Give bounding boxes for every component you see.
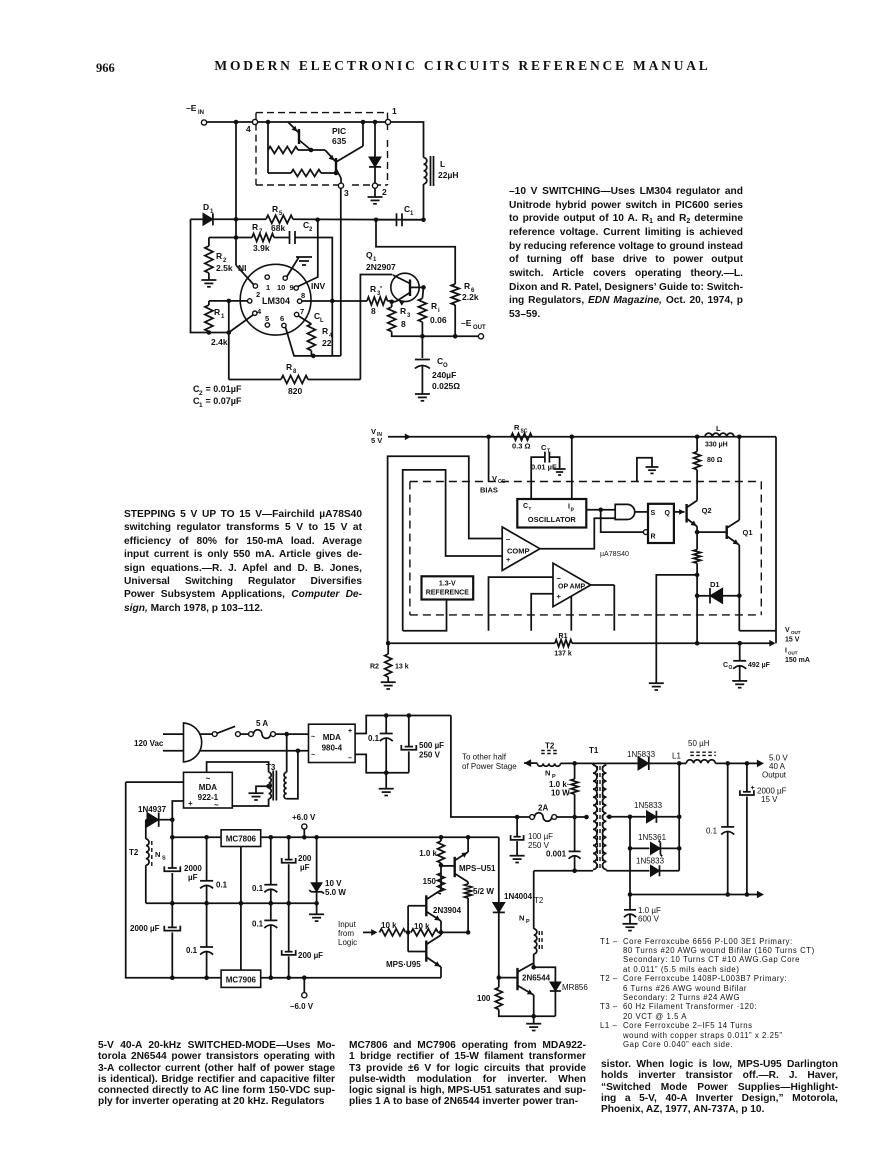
ground filter	[379, 788, 394, 790]
op-amp COMP	[502, 527, 540, 571]
svg-text:500 µF: 500 µF	[419, 741, 444, 750]
capacitor CO 492uF	[739, 643, 741, 660]
svg-text:µF: µF	[300, 863, 310, 872]
svg-text:P: P	[526, 919, 530, 925]
svg-text:': '	[380, 284, 382, 294]
svg-text:9: 9	[290, 283, 294, 292]
svg-text:15 V: 15 V	[761, 795, 778, 804]
wire lower ac line	[199, 750, 309, 752]
svg-text:+: +	[557, 592, 562, 601]
rail minus6	[220, 977, 222, 979]
svg-text:3: 3	[407, 313, 411, 319]
svg-text:492 µF: 492 µF	[748, 662, 771, 669]
wire MDA922 left to rail	[126, 781, 184, 783]
svg-text:10: 10	[277, 283, 285, 292]
svg-text:R1: R1	[559, 633, 568, 640]
wire left rail	[191, 219, 229, 332]
pin 1 of PIC	[385, 119, 390, 124]
svg-text:L: L	[320, 318, 324, 324]
capacitor 0.001	[574, 817, 576, 851]
capacitor 0.1 b	[270, 837, 272, 884]
transistor Q2	[674, 511, 685, 513]
svg-text:MDA: MDA	[199, 783, 217, 792]
svg-text:i: i	[438, 308, 440, 314]
svg-text:1N4004: 1N4004	[504, 892, 533, 901]
ground below	[649, 682, 664, 684]
wire inductor to C1 node	[423, 184, 425, 220]
svg-text:1N5833: 1N5833	[636, 857, 665, 866]
svg-text:MDA: MDA	[323, 733, 341, 742]
svg-text:0.06: 0.06	[430, 315, 447, 325]
resistor PIC internal Ra	[268, 147, 298, 154]
svg-text:OUT: OUT	[788, 651, 798, 656]
resistor R6 2.2k	[451, 284, 459, 305]
wire base chain	[407, 906, 409, 952]
terminal -E_IN	[201, 120, 206, 125]
wire plus rail corner down	[498, 836, 500, 838]
svg-text:2000 µF: 2000 µF	[130, 924, 160, 933]
capacitor 2000uF lower	[171, 903, 173, 927]
svg-text:O: O	[729, 665, 733, 671]
wire U51 collector	[467, 837, 469, 852]
svg-text:0.1: 0.1	[186, 946, 198, 955]
svg-text:50 µH: 50 µH	[688, 739, 710, 748]
box MDA 922-1	[184, 772, 233, 808]
svg-text:N: N	[155, 850, 160, 859]
capacitor 1.0uF 600V	[629, 895, 631, 910]
wire node4 vertical	[235, 122, 237, 265]
transistor Qa inside PIC	[298, 129, 300, 144]
resistor R4 22 CL	[307, 324, 315, 351]
ground below Co	[415, 393, 430, 395]
wire Q1 emitter to D1	[738, 545, 740, 631]
svg-text:8: 8	[301, 291, 305, 300]
wire Vcc bias pin	[488, 437, 490, 482]
svg-text:2: 2	[309, 227, 313, 233]
svg-text:6: 6	[280, 314, 284, 323]
svg-text:OUT: OUT	[791, 630, 801, 635]
resistor R3p 8	[367, 297, 387, 305]
svg-text:COMP: COMP	[507, 547, 530, 556]
svg-text:MC7906: MC7906	[226, 976, 257, 985]
svg-text:100 µF: 100 µF	[528, 832, 553, 841]
AC plug	[184, 723, 202, 762]
svg-text:~: ~	[206, 774, 211, 783]
svg-text:= 0.01µF: = 0.01µF	[203, 384, 242, 394]
resistor R5 68k	[266, 215, 293, 223]
svg-text:1.3-V: 1.3-V	[439, 581, 456, 588]
ground above LM304	[296, 256, 312, 258]
svg-text:−: −	[506, 535, 511, 544]
svg-text:S: S	[651, 510, 656, 517]
svg-text:MR856: MR856	[562, 983, 588, 992]
wires comp inputs nested	[388, 456, 503, 643]
svg-text:= 0.07µF: = 0.07µF	[203, 396, 242, 406]
svg-text:C: C	[723, 662, 728, 669]
wire pin2 NI diagonal	[236, 265, 254, 284]
svg-text:250 V: 250 V	[419, 751, 441, 760]
svg-text:L: L	[440, 159, 445, 169]
svg-text:MPS·U95: MPS·U95	[386, 960, 421, 969]
svg-text:R: R	[651, 534, 656, 541]
AND gate	[615, 504, 635, 519]
wire 6544 collector	[533, 963, 535, 967]
pin circles LM304	[265, 275, 269, 279]
wire pin6 diagonal to rail	[286, 327, 341, 356]
svg-text:of Power Stage: of Power Stage	[462, 762, 517, 771]
wire internal left vertical	[267, 122, 269, 150]
svg-text:100: 100	[477, 994, 491, 1003]
svg-text:V: V	[785, 627, 790, 634]
svg-text:0.3 Ω: 0.3 Ω	[512, 442, 531, 451]
capacitor 0.1 a	[206, 837, 208, 881]
svg-text:2000: 2000	[184, 864, 202, 873]
wire Ip pin	[571, 437, 573, 499]
svg-text:T2: T2	[129, 848, 139, 857]
svg-text:4: 4	[246, 124, 251, 134]
wire C1 to R6 top	[376, 220, 455, 284]
svg-text:0.1: 0.1	[368, 734, 380, 743]
svg-text:OSCILLATOR: OSCILLATOR	[528, 515, 577, 524]
transistor Q1	[697, 531, 727, 533]
svg-text:2N6544: 2N6544	[522, 974, 551, 983]
wire pin8 to R3p	[302, 300, 367, 302]
svg-text:2N3904: 2N3904	[433, 906, 462, 915]
resistor R2 2.5k	[205, 246, 213, 273]
svg-text:0.1: 0.1	[216, 881, 228, 890]
svg-text:T: T	[529, 506, 532, 511]
svg-text:~: ~	[214, 801, 219, 810]
svg-text:D: D	[203, 202, 209, 212]
svg-text:0.01 µF: 0.01 µF	[531, 463, 557, 472]
svg-text:L1: L1	[672, 752, 681, 761]
wire C2 to lower rail	[295, 238, 332, 356]
ground below pin 2	[374, 188, 376, 197]
wire primary bottom	[534, 870, 593, 872]
wire T2 bottom to mid rail	[145, 865, 147, 903]
wire secondary CT	[607, 815, 612, 820]
svg-text:13 k: 13 k	[395, 664, 409, 671]
op-amp OP AMP	[553, 563, 591, 607]
wire pin10 to ground	[287, 257, 299, 277]
svg-text:330 µH: 330 µH	[705, 442, 728, 449]
svg-text:1: 1	[221, 314, 225, 320]
wire U95 emitter to rail	[440, 967, 442, 978]
svg-text:R: R	[400, 306, 406, 316]
resistor R8 820	[229, 379, 281, 381]
capacitor 500uF 250V	[408, 716, 410, 747]
rail plus6	[172, 836, 221, 838]
svg-text:R: R	[514, 423, 520, 432]
wire U95 collector	[440, 932, 442, 935]
capacitor 200uF b	[288, 903, 290, 952]
svg-text:T2: T2	[545, 742, 555, 751]
wire pin9 INV diagonal	[298, 220, 318, 287]
ground inverter	[533, 1016, 535, 1024]
svg-text:–E: –E	[186, 103, 197, 113]
svg-text:–: –	[348, 755, 352, 762]
svg-text:2.5k: 2.5k	[216, 263, 233, 273]
svg-text:BIAS: BIAS	[480, 486, 498, 495]
diode D1	[203, 213, 213, 225]
svg-text:Output: Output	[762, 771, 787, 780]
capacitor 0.1 out	[727, 763, 729, 827]
svg-text:R2: R2	[370, 664, 379, 671]
svg-text:SC: SC	[521, 429, 528, 435]
svg-text:8: 8	[293, 369, 297, 375]
svg-text:from: from	[338, 929, 354, 938]
svg-text:N: N	[545, 769, 550, 778]
capacitor 0.1 d	[270, 903, 272, 920]
svg-text:R: R	[322, 326, 328, 336]
capacitor CT 0.01uF	[531, 457, 545, 499]
wire MC7906 top pin	[240, 903, 242, 970]
wire HV rail	[451, 716, 530, 818]
svg-text:R: R	[214, 307, 220, 317]
svg-text:2.2k: 2.2k	[462, 292, 479, 302]
inductor L 330uH	[705, 433, 734, 437]
svg-text:µF: µF	[188, 873, 198, 882]
wire pin7 diagonal to R4	[299, 316, 312, 324]
svg-text:1.0 k: 1.0 k	[419, 849, 437, 858]
svg-text:5: 5	[265, 314, 269, 323]
svg-text:2A: 2A	[538, 804, 548, 813]
svg-text:5/2 W: 5/2 W	[473, 887, 494, 896]
capacitor 0.1 c	[206, 903, 208, 947]
svg-text:−: −	[557, 574, 562, 583]
wire right bypass	[775, 437, 777, 643]
svg-text:7: 7	[259, 229, 263, 235]
wire secondary top to diode	[607, 762, 638, 764]
resistor 1.0k 10W	[574, 763, 576, 779]
resistor Ri 0.06	[422, 287, 423, 298]
wire T3 right top	[286, 734, 288, 772]
ground below R2	[387, 677, 389, 682]
wire Q1 emitter-junction	[392, 301, 396, 303]
svg-text:R: R	[431, 301, 437, 311]
svg-text:10 W: 10 W	[551, 789, 570, 798]
svg-text:IN: IN	[198, 110, 204, 116]
svg-text:120 Vac: 120 Vac	[134, 739, 164, 748]
svg-text:0.1: 0.1	[706, 827, 718, 836]
pin 2 of PIC	[372, 183, 377, 188]
svg-text:I: I	[785, 648, 787, 655]
svg-text:~: ~	[311, 752, 315, 759]
wire T3 left bottom to MDA922	[232, 799, 268, 806]
svg-text:OUT: OUT	[473, 325, 486, 331]
svg-text:820: 820	[288, 386, 302, 396]
svg-text:600 V: 600 V	[638, 915, 660, 924]
wire op-amp minus input	[489, 577, 554, 631]
svg-text:LM304: LM304	[262, 296, 290, 306]
box oscillator	[517, 499, 586, 528]
pin stub op-amp bottom	[570, 596, 572, 631]
svg-text:+: +	[188, 799, 193, 808]
svg-text:OP AMP: OP AMP	[558, 584, 586, 591]
svg-text:MC7806: MC7806	[226, 835, 257, 844]
svg-text:–E: –E	[461, 318, 472, 328]
svg-text:Input: Input	[338, 920, 357, 929]
svg-text:68k: 68k	[271, 223, 285, 233]
svg-text:0.1: 0.1	[252, 920, 264, 929]
svg-text:0.001: 0.001	[546, 850, 567, 859]
resistor R2 13k	[387, 643, 389, 654]
svg-text:T1: T1	[589, 746, 599, 755]
wire Np bottom to collector	[533, 954, 535, 967]
PIC635 dashed package box	[256, 112, 388, 114]
arrow input	[363, 931, 375, 933]
resistor R7 3.9k	[236, 237, 252, 239]
svg-text:2.4k: 2.4k	[211, 337, 228, 347]
wire T1 primary top	[592, 763, 594, 765]
transistor Q1 2N2907	[391, 273, 419, 301]
wire diode node down	[171, 820, 173, 868]
svg-text:PIC: PIC	[332, 126, 346, 136]
svg-text:Q2: Q2	[702, 506, 712, 515]
svg-text:–6.0 V: –6.0 V	[290, 1002, 314, 1011]
svg-text:2: 2	[256, 290, 260, 299]
svg-text:N: N	[519, 914, 524, 923]
svg-text:2: 2	[382, 187, 387, 197]
svg-text:V: V	[371, 427, 376, 436]
wire R8 to Q1 emitter	[360, 275, 392, 380]
box MC7806	[221, 830, 261, 847]
wire R3 bottom to output rail	[392, 332, 479, 337]
resistor Q2 emitter	[694, 550, 701, 564]
wire MDA980 outputs	[355, 716, 451, 734]
capacitor 2000uF upper	[168, 867, 177, 869]
svg-text:O: O	[443, 363, 448, 369]
svg-text:1N5833: 1N5833	[627, 750, 656, 759]
wire R input from oscillator line	[601, 510, 644, 532]
svg-text:R: R	[216, 251, 222, 261]
svg-text:150: 150	[423, 877, 437, 886]
wire pin left to R1 top	[209, 300, 248, 302]
wire T3 right bottom	[287, 751, 298, 799]
wire 3904 emitter	[440, 921, 442, 932]
svg-text:1: 1	[266, 283, 270, 292]
resistor R1 137k	[555, 640, 572, 647]
wire pin4 diagonal	[229, 315, 253, 333]
diode inside PIC	[374, 122, 376, 157]
svg-text:+6.0 V: +6.0 V	[292, 813, 316, 822]
svg-text:S: S	[162, 856, 166, 862]
resistor 80 ohm	[696, 437, 698, 452]
svg-text:MPS–U51: MPS–U51	[459, 864, 496, 873]
transistor Qb inside PIC	[335, 158, 337, 173]
diode D1	[697, 595, 710, 597]
svg-text:T3: T3	[266, 763, 276, 772]
svg-text:1: 1	[410, 211, 414, 217]
svg-text:15 V: 15 V	[785, 637, 800, 644]
capacitor 100uF 250V	[516, 817, 518, 837]
rail R1 R2	[388, 642, 555, 644]
svg-text:+: +	[348, 728, 352, 735]
svg-text:R: R	[464, 281, 470, 291]
pin 3 of PIC	[338, 183, 343, 188]
svg-text:REFERENCE: REFERENCE	[426, 590, 470, 597]
capacitor C2	[274, 237, 290, 239]
svg-text:137 k: 137 k	[554, 651, 572, 658]
svg-text:10 V: 10 V	[325, 879, 342, 888]
box flip-flop S-R	[648, 504, 674, 543]
box MDA 980-4	[309, 724, 356, 762]
wire Q1 collector to L node	[738, 437, 740, 520]
wire D1 R5 line	[191, 218, 204, 220]
switch	[212, 732, 217, 737]
wire oscillator output	[586, 509, 615, 511]
svg-text:Logic: Logic	[338, 938, 357, 947]
svg-text:0.025Ω: 0.025Ω	[432, 381, 460, 391]
svg-text:7: 7	[300, 307, 304, 316]
wire R7 left to R2	[209, 237, 236, 239]
dashed box uA78S40	[410, 481, 761, 483]
wire emitter return	[499, 1009, 556, 1016]
wire AND to flip-flop	[635, 511, 648, 513]
ground below R2	[208, 273, 210, 280]
wire Q2 emitter chain	[696, 527, 698, 550]
svg-text:Q: Q	[665, 510, 671, 517]
fuse 5A	[249, 732, 254, 737]
terminal -6.0V	[302, 993, 307, 998]
svg-text:L: L	[716, 424, 721, 433]
svg-text:240µF: 240µF	[432, 370, 456, 380]
svg-text:INV: INV	[311, 281, 326, 291]
wire to switch	[199, 733, 212, 735]
svg-text:R: R	[370, 284, 376, 294]
capacitor C1	[396, 213, 398, 226]
floating ground inside IC	[637, 458, 652, 481]
IC U1 LM304 circle	[240, 264, 311, 335]
wire output 5V	[715, 762, 760, 764]
svg-text:200: 200	[298, 854, 312, 863]
arrow to other half	[524, 762, 537, 764]
svg-text:T: T	[547, 449, 550, 455]
svg-text:+: +	[506, 555, 511, 564]
wire MDA922 plus out	[172, 801, 183, 820]
svg-text:22: 22	[322, 338, 332, 348]
wire T3 left top to MDA922	[207, 762, 269, 772]
svg-text:4: 4	[257, 307, 262, 316]
box MC7906	[221, 970, 261, 987]
svg-text:T2: T2	[534, 896, 544, 905]
inductor L 22uH	[424, 158, 427, 184]
pin 4 of PIC	[252, 119, 257, 124]
capacitor 2000uF 15V	[746, 763, 748, 791]
svg-text:Q: Q	[366, 250, 373, 260]
svg-text:0.1: 0.1	[252, 884, 264, 893]
capacitor Co 240uF	[421, 336, 423, 358]
wire left rail	[126, 782, 221, 978]
svg-text:R: R	[252, 222, 258, 232]
T3 center tap ground	[266, 784, 271, 789]
wire Qb collector to top rail	[362, 122, 364, 146]
wire pin3 vertical	[340, 188, 342, 356]
svg-text:1N5833: 1N5833	[634, 801, 663, 810]
wire to ground left	[656, 575, 697, 683]
svg-text:5 V: 5 V	[371, 436, 382, 445]
wire reference to comp chain	[403, 600, 447, 631]
svg-text:C: C	[523, 503, 528, 510]
terminal -E_OUT	[478, 334, 483, 339]
resistor RSC 0.3 ohm	[511, 433, 532, 440]
wire op-amp plus input	[531, 594, 553, 631]
svg-text:1N5361: 1N5361	[638, 833, 667, 842]
svg-text:250 V: 250 V	[528, 841, 550, 850]
svg-text:8: 8	[401, 319, 406, 329]
wire collector to MR856	[534, 967, 556, 982]
capacitor 200uF a	[288, 837, 290, 859]
